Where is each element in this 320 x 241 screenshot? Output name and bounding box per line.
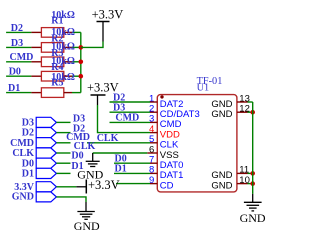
wire D0 stub to pin7 [114,162,150,164]
U1 pin-1 marker dot [160,95,163,98]
svg-text:GND: GND [211,109,232,120]
pin R1 left [31,31,41,33]
svg-text:GND: GND [12,192,34,203]
port GND [36,192,56,202]
wire D2 port stub [56,132,70,134]
wire pin12 to gnd bus [248,111,253,113]
svg-text:R1: R1 [51,15,63,26]
resistor R1 [41,28,63,38]
svg-text:+3.3V: +3.3V [87,80,119,94]
junction pin11 bus [250,171,255,176]
wire D3 stub to pin2 [110,111,151,113]
wire D0 to R4 [6,75,31,77]
ground (VSS) [92,153,94,161]
port CMD [36,138,56,148]
wire R2 to bus [72,46,81,48]
ground (IC right) [252,194,254,202]
junction pin10 bus [250,181,255,186]
wire 3.3V port to power bar [56,186,76,188]
wire pin13 to gnd bus [248,101,253,103]
svg-text:D1: D1 [22,169,34,180]
wire D2 stub to pin1 [110,101,151,103]
svg-text:GND: GND [211,180,232,191]
wire bus to +3.3V stem [81,42,103,48]
port D3 [36,117,56,127]
junction R2 bus [79,45,84,50]
junction R4 bus [79,74,84,79]
svg-text:+3.3V: +3.3V [88,178,120,192]
svg-text:GND: GND [240,211,266,225]
pin R4 right [64,75,72,77]
svg-text:+3.3V: +3.3V [92,8,124,22]
svg-text:CMD: CMD [115,113,139,124]
resistor R4 [41,71,63,81]
wire D3 to R2 [6,46,31,48]
pin R3 right [64,61,72,63]
wire R3 to bus [72,61,81,63]
svg-text:D1: D1 [115,164,127,175]
wire CMD to R3 [6,61,31,63]
pin R2 left [31,46,41,48]
wire +3.3V to pin4 [98,105,151,133]
port D0 [36,158,56,168]
wire R5 to bus [72,92,81,94]
wire D2 to R1 [6,31,31,33]
ground (port) [85,202,87,212]
wire VSS to ground [93,152,148,154]
svg-text:R5: R5 [51,78,63,89]
power +3.3V (CD pull) bar [85,180,87,194]
svg-text:D1: D1 [71,161,83,172]
wire D0 port stub [56,162,70,164]
port D1 [36,168,56,178]
wire pull-up bus vertical [80,32,82,92]
wire CMD stub to pin3 [110,121,151,123]
pin R3 left [31,61,41,63]
pin R1 right [64,31,72,33]
wire D3 port stub [56,121,70,123]
wire R1 to bus [72,31,81,33]
wire D1 port stub [56,172,70,174]
wire pin10 to gnd bus [248,183,253,185]
wire R4 to bus [72,75,81,77]
junction pin12 bus [250,110,255,115]
resistor R5 [41,88,63,98]
wire GND port to ground [56,197,86,202]
pin R4 left [31,75,41,77]
svg-text:D0: D0 [71,150,83,161]
pin R5 right [64,92,72,94]
svg-text:CD: CD [160,180,174,191]
wire CLK stub to pin5 [87,142,150,144]
wire CMD port stub [56,142,70,144]
U1 body [157,95,237,192]
wire +3.3V bar to pin9 [116,183,150,185]
wire pin11 to gnd bus [248,172,253,174]
wire CLK port stub [56,152,70,154]
svg-text:CLK: CLK [97,133,119,144]
pin R2 right [64,46,72,48]
wire D1 to R5 [6,92,31,94]
pin R5 left [31,92,41,94]
port D2 [36,128,56,138]
wire gnd bus right [252,102,254,194]
port CLK [36,148,56,158]
svg-text:TF-01: TF-01 [197,76,223,87]
wire D1 stub to pin8 [114,172,150,174]
power +3.3V (VDD) [97,95,99,105]
junction R3 bus [79,60,84,65]
svg-text:GND: GND [74,219,100,233]
resistor R3 [41,57,63,67]
resistor R2 [41,43,63,53]
power +3.3V (pull-ups) [102,22,104,42]
port 3.3V [36,182,56,192]
